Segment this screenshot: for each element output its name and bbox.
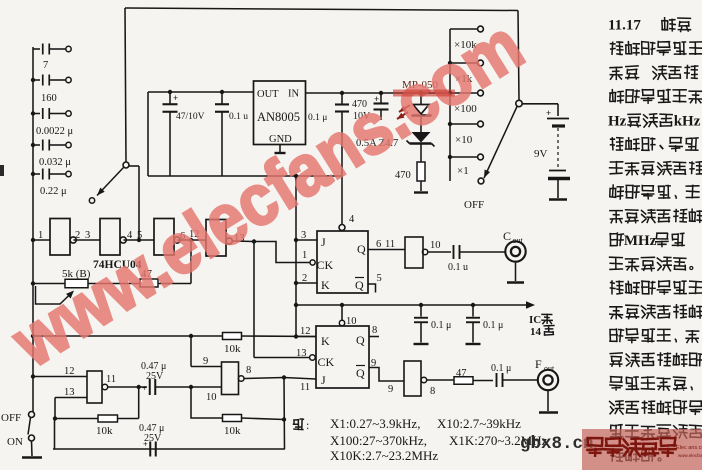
svg-text:10: 10 — [206, 392, 217, 403]
svg-text:9V: 9V — [534, 148, 548, 160]
svg-text:X1:0.27~3.9kHz,: X1:0.27~3.9kHz, — [330, 416, 420, 431]
svg-text:12: 12 — [64, 366, 75, 377]
svg-text:+: + — [142, 384, 147, 393]
svg-text:0.1 u: 0.1 u — [229, 112, 248, 122]
svg-text:OFF: OFF — [464, 199, 484, 211]
svg-text:J: J — [321, 235, 326, 249]
svg-text:ON: ON — [7, 436, 23, 448]
svg-text:×10: ×10 — [455, 134, 473, 146]
svg-text:13: 13 — [64, 387, 75, 398]
svg-text:Q: Q — [356, 333, 365, 347]
svg-text:Q: Q — [356, 366, 365, 380]
svg-text:kHz: kHz — [674, 113, 701, 129]
svg-text:5: 5 — [377, 273, 382, 284]
svg-text:+: + — [143, 440, 148, 449]
svg-text:47: 47 — [456, 368, 467, 379]
svg-text:12: 12 — [300, 326, 311, 337]
svg-text:C: C — [503, 229, 511, 243]
svg-text:160: 160 — [41, 93, 57, 104]
svg-text:+: + — [173, 93, 178, 103]
svg-text:F: F — [535, 357, 542, 371]
svg-text:25V: 25V — [146, 371, 164, 382]
svg-text:Hz: Hz — [608, 113, 627, 129]
svg-text:IN: IN — [288, 89, 299, 100]
svg-text:10: 10 — [430, 240, 441, 251]
svg-text:IC: IC — [529, 314, 541, 326]
svg-text:2: 2 — [75, 230, 80, 241]
svg-text:10k: 10k — [224, 343, 241, 355]
svg-text:11: 11 — [385, 239, 395, 250]
svg-text:K: K — [321, 278, 330, 292]
svg-text:0.0022 μ: 0.0022 μ — [36, 126, 74, 137]
svg-text:www.elecfans: www.elecfans — [678, 453, 702, 458]
svg-text:6: 6 — [376, 239, 381, 250]
svg-text:0.1 μ: 0.1 μ — [431, 320, 451, 331]
svg-text:0.1 μ: 0.1 μ — [491, 363, 511, 374]
svg-text:3: 3 — [85, 230, 90, 241]
svg-text:MHz: MHz — [624, 233, 657, 249]
svg-text:1: 1 — [38, 230, 43, 241]
svg-text:×1: ×1 — [457, 165, 469, 177]
svg-text:4: 4 — [349, 214, 355, 225]
svg-text:CK: CK — [317, 258, 334, 272]
svg-text:0.1 μ: 0.1 μ — [483, 320, 503, 331]
svg-text:Q: Q — [355, 278, 364, 292]
svg-text:8: 8 — [246, 365, 251, 376]
svg-text:Q: Q — [357, 242, 366, 256]
svg-text:11.17: 11.17 — [608, 18, 641, 34]
svg-text:K: K — [321, 334, 330, 348]
svg-text::: : — [306, 418, 309, 432]
svg-text:out: out — [513, 236, 524, 245]
svg-text:10k: 10k — [96, 425, 113, 437]
svg-text:8: 8 — [372, 325, 377, 336]
svg-text:0.032 μ: 0.032 μ — [39, 157, 71, 168]
svg-text:10k: 10k — [224, 425, 241, 437]
svg-text:J: J — [321, 373, 326, 387]
svg-text:11: 11 — [300, 382, 310, 393]
svg-text:13: 13 — [296, 348, 307, 359]
svg-text:AN8005: AN8005 — [257, 110, 300, 124]
svg-text:OFF: OFF — [1, 412, 21, 424]
svg-text:CK: CK — [318, 355, 335, 369]
svg-text:0.22 μ: 0.22 μ — [40, 186, 67, 197]
svg-text:0.1 u: 0.1 u — [448, 262, 468, 273]
svg-text:11: 11 — [106, 374, 116, 385]
svg-text:9: 9 — [203, 356, 208, 367]
svg-text:OUT: OUT — [257, 89, 279, 100]
svg-text:3: 3 — [301, 230, 306, 241]
svg-text:out: out — [544, 364, 555, 373]
svg-text:1: 1 — [302, 250, 307, 261]
svg-text:2: 2 — [302, 273, 307, 284]
svg-text:X10:2.7~39kHz: X10:2.7~39kHz — [437, 416, 521, 431]
svg-text:47/10V: 47/10V — [176, 112, 205, 122]
svg-text:14: 14 — [530, 326, 542, 338]
svg-text:7: 7 — [43, 60, 48, 71]
svg-text:9: 9 — [371, 358, 376, 369]
svg-text:8: 8 — [430, 386, 435, 397]
svg-text:X10K:2.7~23.2MHz: X10K:2.7~23.2MHz — [330, 448, 438, 463]
svg-text:+: + — [546, 108, 551, 118]
svg-text:470: 470 — [395, 170, 411, 181]
svg-text:X100:27~370kHz,: X100:27~370kHz, — [330, 433, 427, 448]
svg-text:Elec ans.co: Elec ans.co — [676, 445, 702, 451]
svg-text:9: 9 — [388, 384, 393, 395]
